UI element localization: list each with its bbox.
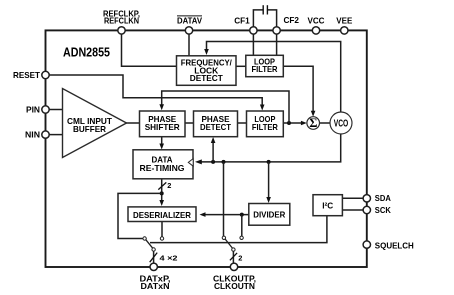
svg-text:DATxN: DATxN — [141, 281, 170, 291]
pin SDA — [363, 195, 370, 202]
svg-text:2: 2 — [238, 254, 242, 263]
svg-text:FILTER: FILTER — [252, 65, 278, 74]
pin CLKOUTP/CLKOUTN — [230, 263, 237, 270]
block PHASE SHIFTER — [140, 111, 186, 137]
pin NIN — [42, 131, 49, 138]
svg-text:RESET: RESET — [13, 70, 41, 80]
pin CF1 — [250, 27, 257, 34]
block I2C — [313, 195, 342, 216]
svg-text:SQUELCH: SQUELCH — [375, 240, 414, 250]
block PHASE DETECT — [194, 111, 238, 137]
wire VCO top feedback to FREQ/LOCK DETECT — [207, 42, 341, 114]
switch clock output mux — [222, 236, 225, 239]
wire LOOP FILTER 2 output to sigma — [283, 122, 301, 124]
wire PIN to buffer — [49, 109, 63, 111]
svg-text:BUFFER: BUFFER — [73, 125, 106, 134]
wire clock down to DIVIDER — [268, 162, 270, 198]
wire bypass branch to data switch — [118, 193, 162, 238]
wire clock down to clock switch left contact — [223, 162, 225, 236]
svg-text:DETECT: DETECT — [190, 74, 223, 83]
svg-text:DATAV: DATAV — [177, 16, 202, 26]
svg-text:VCC: VCC — [308, 16, 325, 26]
wire DATA RE-TIMING down to DESERIALIZER — [161, 179, 163, 201]
wire LOOP FILTER 1 to sigma top — [283, 66, 313, 111]
node divider output — [240, 213, 244, 217]
block FREQUENCY/LOCK DETECT — [177, 56, 237, 86]
pin VCC — [312, 27, 319, 34]
capacitor between CF1 and CF2 — [253, 10, 263, 28]
pin REFCLKP/REFCLKN — [118, 27, 125, 34]
block LOOP FILTER 2 — [247, 111, 284, 137]
node retimed data branch — [160, 191, 164, 195]
bus slash 2 retimed data — [158, 182, 166, 189]
wire DESERIALIZER down to data switch — [161, 222, 163, 237]
bus slash 2 clock — [230, 253, 237, 260]
wire I2C to SDA — [342, 197, 364, 199]
wire RESET to LOOP FILTER 2 — [49, 75, 262, 105]
wire VCO bottom clock line to DATA RE-TIMING — [200, 134, 341, 162]
wire I2C to SCK — [342, 209, 364, 211]
svg-text:I²C: I²C — [322, 202, 333, 211]
pin SCK — [363, 206, 370, 213]
svg-text:CLKOUTN: CLKOUTN — [214, 281, 255, 291]
svg-text:DETECT: DETECT — [200, 123, 231, 132]
svg-text:CF1: CF1 — [234, 16, 250, 26]
wire CF1 riser — [252, 28, 254, 56]
wire junction up and over to PHASE SHIFTER — [162, 91, 289, 123]
svg-text:NIN: NIN — [25, 129, 40, 139]
svg-text:PIN: PIN — [26, 104, 40, 114]
svg-text:Σ: Σ — [309, 116, 317, 130]
node junction loop-filter output — [287, 121, 291, 125]
wire buffer to PHASE SHIFTER — [126, 122, 140, 124]
pin DATAV — [185, 27, 192, 34]
op-amp CML INPUT BUFFER — [63, 89, 127, 158]
svg-text:SDA: SDA — [375, 193, 391, 203]
svg-text:2: 2 — [167, 181, 171, 190]
node clock to divider — [267, 160, 271, 164]
summing node sigma — [307, 117, 320, 130]
node clock to phase detect — [211, 160, 215, 164]
svg-text:REFCLKN: REFCLKN — [104, 16, 139, 26]
node clock to output switch — [222, 160, 226, 164]
block DIVIDER — [249, 204, 290, 226]
pin SQUELCH — [363, 241, 370, 248]
svg-text:4 ×2: 4 ×2 — [160, 254, 178, 263]
svg-text:CF2: CF2 — [284, 15, 300, 25]
svg-text:DIVIDER: DIVIDER — [253, 210, 285, 219]
wire PHASE SHIFTER down to DATA RE-TIMING — [161, 137, 163, 144]
bus slash 4x2 — [150, 253, 158, 263]
svg-text:RE-TIMING: RE-TIMING — [140, 164, 185, 173]
chip outline ADN2855 — [46, 30, 367, 267]
oscillator VCO — [330, 112, 352, 134]
pin PIN — [42, 106, 49, 113]
wire feedback up into PHASE DETECT — [212, 143, 214, 162]
svg-text:FILTER: FILTER — [252, 123, 278, 132]
wire PHASE SHIFTER to PHASE DETECT — [185, 122, 194, 124]
svg-text:ADN2855: ADN2855 — [63, 45, 110, 60]
wire CF2 riser — [276, 28, 278, 56]
wire DIVIDER to DESERIALIZER — [205, 214, 249, 216]
pin DATxP/DATxN — [150, 263, 157, 270]
wire divider output down to clock switch right contact — [241, 215, 243, 237]
svg-text:VEE: VEE — [336, 16, 352, 26]
block DESERIALIZER — [128, 207, 196, 222]
pin CF2 — [273, 27, 280, 34]
wire switch control line to I2C — [150, 216, 327, 243]
block DATA RE-TIMING — [133, 150, 193, 179]
pin RESET — [42, 71, 49, 78]
svg-text:SHIFTER: SHIFTER — [145, 123, 180, 132]
svg-text:DESERIALIZER: DESERIALIZER — [133, 211, 191, 220]
wire NIN to buffer — [49, 134, 63, 136]
clock input triangle — [188, 159, 193, 167]
wire REFCLK to FREQ/LOCK DETECT — [122, 32, 177, 66]
svg-text:VCO: VCO — [334, 119, 349, 130]
wire FREQ/LOCK DETECT to LOOP FILTER 1 — [236, 65, 246, 67]
svg-text:SCK: SCK — [375, 205, 391, 215]
switch data output mux — [143, 237, 146, 240]
wire DATAV down into FREQ/LOCK DETECT — [188, 32, 190, 56]
wire PHASE DETECT to LOOP FILTER 2 — [238, 122, 247, 124]
pin VEE — [341, 27, 348, 34]
wire sigma to VCO — [319, 122, 330, 124]
block LOOP FILTER top — [246, 55, 283, 76]
